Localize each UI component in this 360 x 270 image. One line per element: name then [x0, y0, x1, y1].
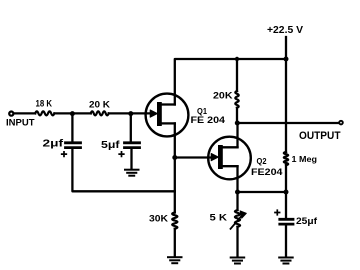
- wire R 5K to ground: [236, 227, 238, 257]
- svg-text:20 K: 20 K: [89, 100, 111, 110]
- wire Q2 source down: [236, 166, 238, 192]
- node junction Q1 source / Q2 gate: [172, 155, 177, 160]
- svg-text:+22.5 V: +22.5 V: [267, 25, 303, 36]
- svg-text:20K: 20K: [213, 91, 233, 101]
- wire to R 5K: [236, 192, 238, 210]
- wire R 20K to output node: [236, 108, 238, 123]
- label 30K: [149, 214, 168, 224]
- capacitor C2 5uf: [125, 143, 140, 148]
- node junction input/2uf: [70, 111, 75, 116]
- wire node to capacitor C3: [285, 192, 287, 218]
- svg-text:5μf: 5μf: [101, 140, 120, 151]
- svg-text:FE204: FE204: [251, 167, 283, 177]
- wire supply rail to R 1Meg: [285, 59, 287, 152]
- wire C1 to Q1 source node: [72, 149, 174, 192]
- wire Q1 source to Q2 gate: [175, 156, 213, 158]
- resistor R2 20K: [91, 111, 109, 115]
- resistor R3 20K: [235, 91, 238, 108]
- wire output node to Q2 drain: [236, 123, 238, 147]
- polarity plus C3: [275, 210, 280, 215]
- label Q1: [197, 106, 207, 116]
- resistor R6 1 Meg: [284, 152, 288, 165]
- node junction supply: [284, 57, 289, 62]
- ground G2: [168, 257, 182, 263]
- svg-text:OUTPUT: OUTPUT: [299, 130, 341, 142]
- polarity plus C2: [119, 152, 124, 157]
- svg-text:30K: 30K: [149, 214, 168, 224]
- transistor Q1 FE204: [146, 94, 189, 137]
- resistor R1 18K: [35, 111, 54, 115]
- label 20K: [213, 91, 233, 101]
- svg-text:Q2: Q2: [257, 156, 267, 166]
- label INPUT: [6, 118, 35, 128]
- svg-text:5 K: 5 K: [210, 211, 228, 222]
- label 25uf: [296, 216, 318, 226]
- polarity plus C1: [62, 152, 67, 157]
- svg-text:18 K: 18 K: [36, 99, 53, 109]
- capacitor C1 2uf: [66, 143, 81, 148]
- wire Q1 source down: [174, 123, 176, 157]
- label 2uf: [43, 138, 64, 149]
- wire supply stub: [285, 37, 287, 59]
- node junction input/5uf: [128, 111, 133, 116]
- label FE 204: [191, 115, 226, 125]
- svg-text:25μf: 25μf: [296, 216, 318, 226]
- wire R 1Meg to node: [285, 165, 287, 192]
- ground G4: [279, 258, 293, 264]
- node output junction: [235, 121, 240, 126]
- label Q2: [257, 156, 267, 166]
- svg-text:2μf: 2μf: [43, 138, 64, 149]
- wire node to capacitor C1: [71, 114, 73, 142]
- node junction 20K top: [235, 57, 239, 61]
- wire node to capacitor C2: [130, 114, 132, 142]
- node junction 1Meg/25uf: [284, 190, 289, 195]
- label 20 K: [89, 100, 111, 110]
- input terminal: [9, 112, 13, 116]
- wire rail to R 20K drain: [236, 59, 238, 91]
- label 1 Meg: [292, 154, 318, 164]
- capacitor C3 25uf: [280, 219, 293, 224]
- wire Q1 drain to +V rail: [175, 59, 286, 105]
- label 5 K: [210, 211, 228, 222]
- wire R 20K to Q1 gate: [109, 112, 152, 114]
- ground G1: [125, 170, 139, 176]
- wire R 18K to R 20K: [54, 112, 90, 114]
- svg-text:INPUT: INPUT: [6, 118, 35, 128]
- resistor R4 30K: [172, 213, 177, 229]
- svg-text:FE 204: FE 204: [191, 115, 226, 125]
- label 5uf: [101, 140, 120, 151]
- label +22.5 V: [267, 25, 303, 36]
- output terminal: [339, 121, 343, 125]
- label 18K: [36, 99, 53, 109]
- wire C3 to ground: [285, 225, 287, 257]
- wire R 30K to ground: [174, 229, 176, 257]
- label OUTPUT: [299, 130, 341, 142]
- resistor R5 5K variable: [231, 210, 247, 229]
- node junction Q2 source: [235, 190, 240, 195]
- svg-text:1 Meg: 1 Meg: [292, 154, 318, 164]
- label FE204: [251, 167, 283, 177]
- wire source node down to R 30K: [174, 158, 176, 213]
- wire C2 to ground: [130, 149, 132, 169]
- transistor Q2 FE204: [208, 137, 251, 180]
- wire input to R 18K: [14, 112, 35, 114]
- wire source to 25uf branch: [238, 191, 287, 193]
- wire output line: [237, 122, 338, 124]
- ground G3: [231, 258, 245, 264]
